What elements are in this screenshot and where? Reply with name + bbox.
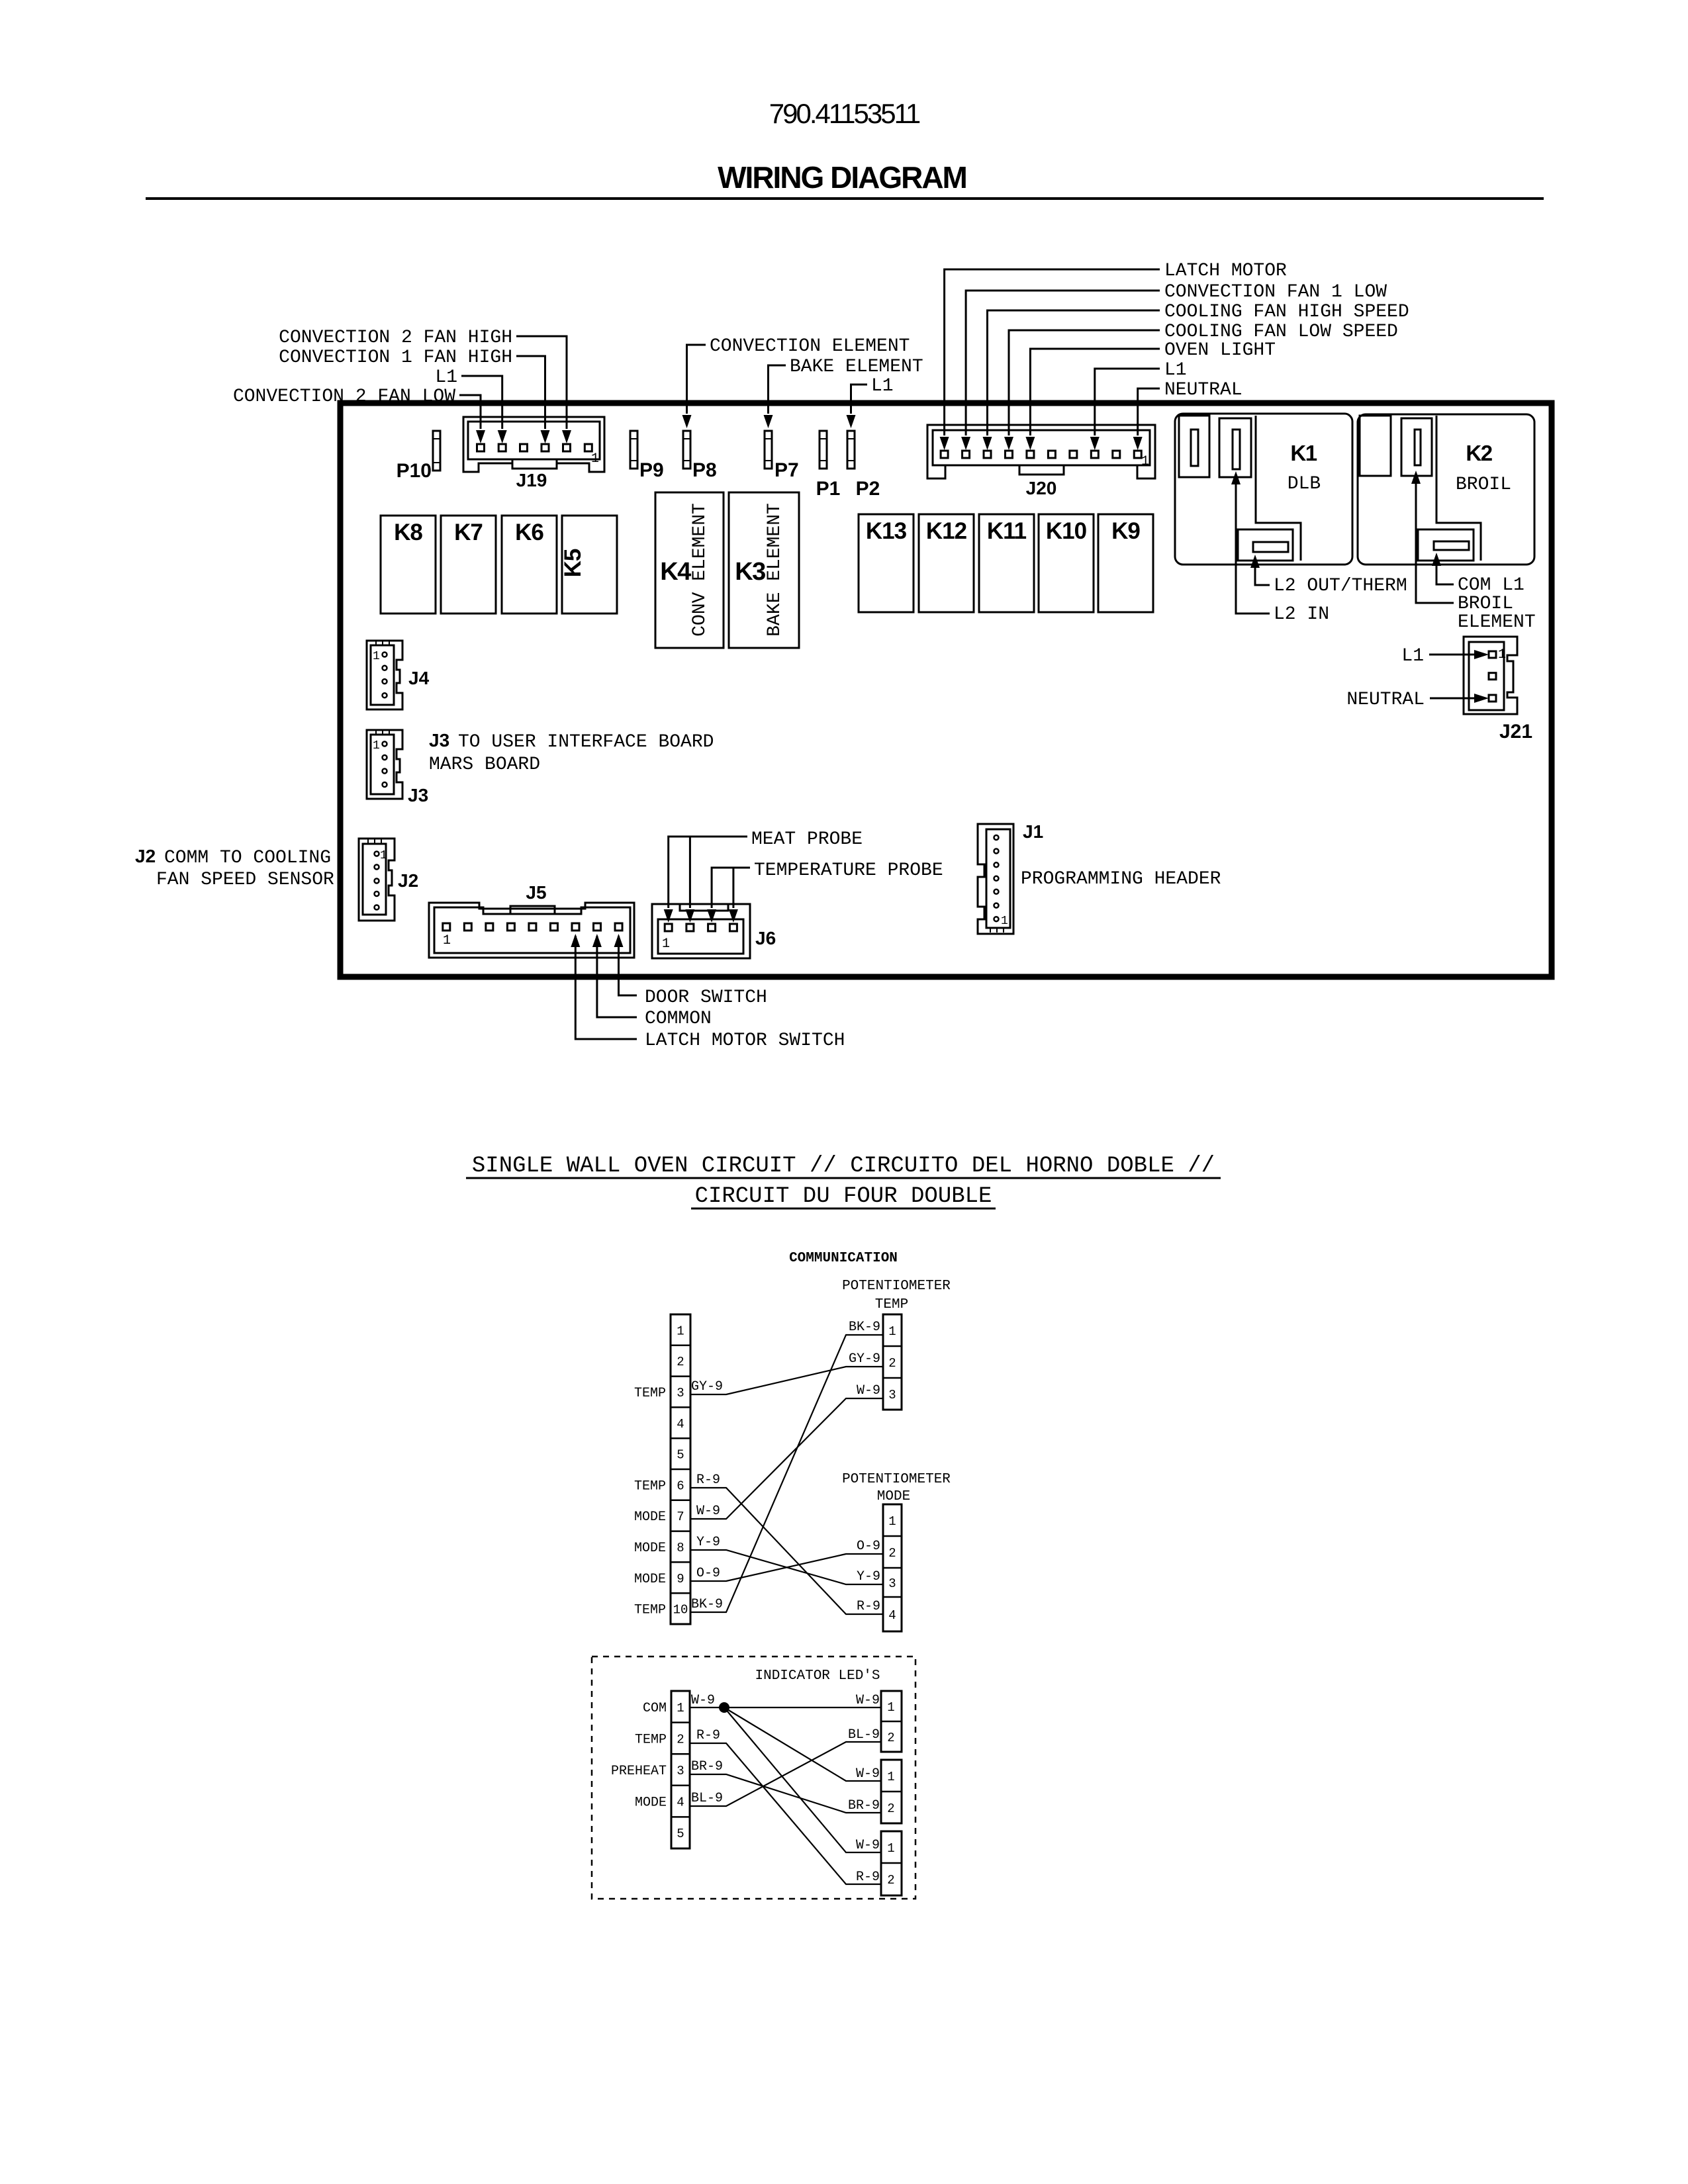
svg-text:POTENTIOMETER: POTENTIOMETER <box>842 1472 951 1487</box>
svg-text:PREHEAT: PREHEAT <box>611 1764 667 1779</box>
pin J19-3 <box>520 444 528 451</box>
connector J21 <box>1464 637 1517 714</box>
label OVEN LIGHT with leader to J20 pin at x=1556.4 <box>1025 340 1276 450</box>
svg-text:J4: J4 <box>408 668 430 688</box>
label L1 with leader to J20 pin at x=1653.8 <box>1090 360 1187 450</box>
svg-text:MODE: MODE <box>634 1572 666 1587</box>
svg-text:TEMP: TEMP <box>634 1479 666 1494</box>
heading POTENTIOMETER TEMP <box>842 1279 951 1312</box>
svg-text:3: 3 <box>677 1764 684 1778</box>
pin J20-9 <box>1113 451 1120 458</box>
svg-text:J2: J2 <box>135 846 156 866</box>
svg-text:SINGLE WALL OVEN CIRCUIT // CI: SINGLE WALL OVEN CIRCUIT // CIRCUITO DEL… <box>472 1154 1215 1179</box>
connector strip POTENTIOMETER TEMP (3 pins) <box>883 1314 902 1410</box>
svg-text:1: 1 <box>1001 915 1008 928</box>
label J3 TO USER INTERFACE BOARD <box>429 730 714 752</box>
wire O-9 COMM-9 to POT-MODE-2 <box>690 1539 883 1581</box>
svg-text:MODE: MODE <box>634 1541 666 1556</box>
wire W-9 LED-COMM-1 to LED1-1 <box>690 1693 881 1708</box>
pin J1-7 <box>994 917 999 921</box>
K2 pin slot B BROIL ELEMENT terminal <box>1401 418 1432 476</box>
dashed box INDICATOR LED'S <box>592 1657 915 1899</box>
svg-text:1: 1 <box>380 849 387 862</box>
svg-text:NEUTRAL: NEUTRAL <box>1164 380 1243 400</box>
pin J5-5 <box>529 923 536 931</box>
pin J5-8 <box>594 923 601 931</box>
label L1 with leader to J19-2 <box>435 367 506 443</box>
svg-text:P2: P2 <box>856 478 880 500</box>
svg-text:1: 1 <box>888 1324 896 1339</box>
board outline <box>340 403 1552 977</box>
svg-text:L1: L1 <box>871 376 894 396</box>
svg-text:10: 10 <box>673 1603 688 1617</box>
svg-text:COOLING FAN LOW SPEED: COOLING FAN LOW SPEED <box>1164 322 1398 342</box>
svg-text:2: 2 <box>887 1801 894 1816</box>
svg-text:1: 1 <box>373 650 380 663</box>
connector strip LED1 (2 pins) <box>881 1691 902 1752</box>
wire GY-9 COMM-3 to POT-TEMP-2 <box>690 1351 883 1394</box>
junction dot on W-9 wire <box>719 1702 729 1713</box>
label COOLING FAN LOW SPEED with leader to J20 pin at x=1524.0 <box>1004 322 1398 450</box>
svg-text:7: 7 <box>677 1510 684 1524</box>
pin J4-1 <box>383 653 387 657</box>
svg-text:LATCH MOTOR: LATCH MOTOR <box>1164 261 1287 281</box>
label TEMPERATURE PROBE with leaders to J6-3 J6-4 <box>707 860 943 923</box>
pin J5-4 <box>507 923 514 931</box>
connector strip LED COMM (5 pins) <box>671 1691 690 1848</box>
pin J3-2 <box>383 755 387 760</box>
pin J5-7 <box>572 923 579 931</box>
svg-text:J3: J3 <box>429 730 449 751</box>
svg-text:COM: COM <box>643 1701 667 1716</box>
pin J5-9 <box>615 923 622 931</box>
label L1 with leader to P2 <box>847 376 894 428</box>
svg-text:R-9: R-9 <box>857 1599 880 1614</box>
wire R-9 LED-COMM-2 to LED3-2 <box>690 1728 881 1885</box>
label NEUTRAL with leader to J20 pin at x=1718.7 <box>1133 380 1243 450</box>
relay K3 BAKE ELEMENT <box>729 492 799 648</box>
svg-text:FAN SPEED SENSOR: FAN SPEED SENSOR <box>156 870 334 890</box>
label LATCH MOTOR SWITCH with leader to J5-7 <box>571 934 845 1051</box>
svg-text:COM L1: COM L1 <box>1458 575 1524 596</box>
svg-text:COMMON: COMMON <box>645 1009 712 1029</box>
pin J3-3 <box>383 769 387 774</box>
pin J1-1 <box>994 835 999 840</box>
label CONVECTION FAN 1 LOW with leader to J20 pin at x=1459.1 <box>961 282 1387 450</box>
connector J4 <box>367 641 402 709</box>
svg-text:O-9: O-9 <box>857 1539 880 1554</box>
svg-text:L1: L1 <box>1401 646 1424 666</box>
pin J19-6 <box>585 444 592 451</box>
svg-text:COOLING FAN HIGH SPEED: COOLING FAN HIGH SPEED <box>1164 302 1409 322</box>
svg-text:6: 6 <box>677 1479 684 1493</box>
pin J6-4 <box>729 924 737 931</box>
svg-text:BR-9: BR-9 <box>848 1798 880 1813</box>
pin J20-6 <box>1048 451 1055 458</box>
svg-text:L2 IN: L2 IN <box>1274 604 1329 625</box>
pin J5-1 <box>443 923 450 931</box>
connector J3 <box>367 730 402 799</box>
svg-text:W-9: W-9 <box>856 1693 880 1708</box>
relay K10 <box>1039 514 1094 612</box>
relay K8 <box>381 516 436 614</box>
label L2 OUT/THERM with leader arrow <box>1250 555 1407 596</box>
svg-text:J6: J6 <box>755 928 776 948</box>
svg-text:4: 4 <box>677 1796 684 1810</box>
wire R-9 COMM-6 to POT-MODE-4 <box>690 1473 883 1614</box>
svg-text:MODE: MODE <box>877 1489 910 1504</box>
svg-text:3: 3 <box>888 1576 896 1591</box>
pin J20-10 <box>1134 451 1141 458</box>
pin J2-5 <box>375 905 379 910</box>
svg-text:NEUTRAL: NEUTRAL <box>1346 690 1425 710</box>
pin J6-2 <box>686 924 694 931</box>
svg-text:COMMUNICATION: COMMUNICATION <box>789 1251 898 1266</box>
svg-text:CONVECTION ELEMENT: CONVECTION ELEMENT <box>710 336 910 357</box>
svg-text:BL-9: BL-9 <box>691 1791 723 1806</box>
connector J19 <box>463 417 604 472</box>
connector J5 <box>429 903 634 958</box>
svg-text:TEMP: TEMP <box>875 1297 908 1312</box>
svg-text:J5: J5 <box>526 882 546 903</box>
relay K11 <box>979 514 1034 612</box>
pin J20-7 <box>1070 451 1077 458</box>
label MEAT PROBE with leaders to J6-1 J6-2 <box>664 829 863 923</box>
svg-text:8: 8 <box>677 1541 684 1555</box>
svg-text:POTENTIOMETER: POTENTIOMETER <box>842 1279 951 1294</box>
pin J20-5 <box>1027 451 1034 458</box>
svg-text:TO USER INTERFACE BOARD: TO USER INTERFACE BOARD <box>458 732 714 752</box>
pin J2-1 <box>375 852 379 856</box>
svg-text:K11: K11 <box>987 518 1027 544</box>
svg-text:K1: K1 <box>1290 441 1317 465</box>
label CONVECTION 2 FAN LOW with leader to J19-1 <box>233 387 485 443</box>
svg-text:R-9: R-9 <box>856 1870 880 1885</box>
pin J2-3 <box>375 879 379 884</box>
label J2 COMM TO COOLING <box>135 846 331 868</box>
svg-text:4: 4 <box>888 1608 896 1623</box>
svg-text:1: 1 <box>591 451 599 467</box>
svg-text:W-9: W-9 <box>857 1383 880 1398</box>
svg-text:1: 1 <box>443 933 451 948</box>
svg-text:MODE: MODE <box>635 1796 667 1811</box>
relay K12 <box>919 514 974 612</box>
svg-text:BROIL: BROIL <box>1458 594 1513 614</box>
svg-text:1: 1 <box>887 1841 894 1856</box>
pin J1-4 <box>994 876 999 881</box>
svg-text:P8: P8 <box>692 459 717 481</box>
svg-text:K8: K8 <box>394 520 422 545</box>
svg-text:GY-9: GY-9 <box>691 1379 723 1394</box>
relay K1 DLB <box>1175 414 1352 565</box>
svg-text:BK-9: BK-9 <box>691 1597 723 1612</box>
svg-text:L1: L1 <box>1164 360 1187 381</box>
svg-text:4: 4 <box>677 1417 684 1432</box>
wire BR-9 LED-COMM-3 to LED2-2 <box>690 1759 881 1813</box>
svg-text:J3: J3 <box>408 785 428 805</box>
label CONVECTION ELEMENT with leader to P8 <box>682 336 910 428</box>
connector strip POTENTIOMETER MODE (4 pins) <box>883 1504 902 1631</box>
svg-text:L1: L1 <box>435 367 457 388</box>
svg-text:CONVECTION 1 FAN HIGH: CONVECTION 1 FAN HIGH <box>279 347 512 368</box>
svg-text:CONVECTION 2 FAN HIGH: CONVECTION 2 FAN HIGH <box>279 328 512 348</box>
wire W-9 junction to LED2-1 <box>724 1707 881 1782</box>
heading POTENTIOMETER MODE <box>842 1472 951 1504</box>
K2 output terminal COM L1 <box>1418 529 1474 561</box>
label L1 with arrow to J21-1 <box>1401 646 1489 666</box>
wire BK-9 COMM-10 to POT-TEMP-1 <box>690 1320 883 1612</box>
svg-text:DLB: DLB <box>1288 474 1321 494</box>
svg-text:BL-9: BL-9 <box>848 1727 880 1743</box>
connector J6 <box>652 904 750 958</box>
svg-text:2: 2 <box>888 1546 896 1561</box>
svg-text:K13: K13 <box>866 518 907 544</box>
svg-text:MEAT PROBE: MEAT PROBE <box>751 829 863 850</box>
label COOLING FAN HIGH SPEED with leader to J20 pin at x=1491.5 <box>983 302 1409 450</box>
label NEUTRAL with arrow to J21-3 <box>1346 690 1489 710</box>
pin J4-2 <box>383 666 387 670</box>
svg-text:CONV ELEMENT: CONV ELEMENT <box>690 503 710 637</box>
svg-text:TEMP: TEMP <box>634 1386 666 1401</box>
svg-text:2: 2 <box>888 1356 896 1371</box>
label BAKE ELEMENT with leader to P7 <box>764 357 923 428</box>
wire W-9 junction to LED3-1 <box>724 1707 881 1853</box>
svg-text:BAKE ELEMENT: BAKE ELEMENT <box>790 357 923 377</box>
svg-text:MARS BOARD: MARS BOARD <box>429 754 540 775</box>
relay K2 BROIL <box>1358 414 1534 565</box>
pin J1-2 <box>994 849 999 854</box>
svg-text:K4: K4 <box>660 558 691 586</box>
svg-text:K12: K12 <box>926 518 967 544</box>
svg-text:J2: J2 <box>398 870 418 891</box>
svg-text:K10: K10 <box>1046 518 1087 544</box>
svg-text:GY-9: GY-9 <box>849 1351 880 1367</box>
svg-text:WIRING DIAGRAM: WIRING DIAGRAM <box>718 160 966 195</box>
svg-text:TEMP: TEMP <box>634 1603 666 1618</box>
pin J19-1 <box>477 444 485 451</box>
svg-text:BROIL: BROIL <box>1456 475 1511 495</box>
svg-text:TEMPERATURE PROBE: TEMPERATURE PROBE <box>754 860 943 881</box>
relay K9 <box>1098 514 1153 612</box>
header P9 <box>630 431 637 469</box>
header P7 <box>765 431 772 469</box>
svg-text:J21: J21 <box>1499 721 1532 743</box>
svg-text:K2: K2 <box>1466 441 1492 465</box>
svg-text:W-9: W-9 <box>856 1766 880 1782</box>
connector strip LED2 (2 pins) <box>881 1760 902 1823</box>
svg-text:R-9: R-9 <box>696 1473 720 1488</box>
section title SINGLE WALL OVEN CIRCUIT <box>466 1154 1221 1209</box>
svg-text:5: 5 <box>677 1827 684 1841</box>
svg-text:W-9: W-9 <box>696 1504 720 1519</box>
svg-text:1: 1 <box>1498 647 1506 662</box>
svg-text:K3: K3 <box>735 558 765 586</box>
svg-text:ELEMENT: ELEMENT <box>1458 612 1536 633</box>
svg-text:1: 1 <box>1141 454 1149 469</box>
pin J3-4 <box>383 782 387 787</box>
svg-text:L2 OUT/THERM: L2 OUT/THERM <box>1274 576 1407 596</box>
svg-text:BR-9: BR-9 <box>691 1759 723 1774</box>
svg-text:K6: K6 <box>515 520 543 545</box>
svg-text:COMM TO COOLING: COMM TO COOLING <box>164 848 331 868</box>
svg-text:Y-9: Y-9 <box>857 1569 880 1584</box>
svg-text:3: 3 <box>888 1388 896 1402</box>
svg-text:TEMP: TEMP <box>635 1732 667 1747</box>
pin J2-4 <box>375 891 379 896</box>
svg-text:2: 2 <box>887 1731 894 1745</box>
svg-text:1: 1 <box>677 1701 684 1715</box>
label BROIL ELEMENT with leader arrow <box>1411 471 1536 633</box>
svg-text:OVEN LIGHT: OVEN LIGHT <box>1164 340 1276 361</box>
label CONVECTION 2 FAN HIGH with leader to J19-5 <box>279 328 571 443</box>
svg-text:J1: J1 <box>1023 821 1043 842</box>
connector J2 <box>359 839 395 921</box>
svg-text:3: 3 <box>677 1386 684 1400</box>
connector J20 <box>927 425 1155 478</box>
pin J6-1 <box>665 924 672 931</box>
pin J20-2 <box>962 451 970 458</box>
svg-text:INDICATOR LED'S: INDICATOR LED'S <box>755 1668 880 1684</box>
svg-text:K5: K5 <box>560 549 586 577</box>
svg-text:2: 2 <box>677 1355 684 1369</box>
relay K6 <box>502 516 557 614</box>
header P2 <box>847 431 855 469</box>
svg-text:W-9: W-9 <box>691 1693 715 1708</box>
pin J1-6 <box>994 903 999 908</box>
pin J20-1 <box>941 451 948 458</box>
svg-text:CONVECTION FAN 1 LOW: CONVECTION FAN 1 LOW <box>1164 282 1387 302</box>
svg-text:O-9: O-9 <box>696 1566 720 1581</box>
svg-text:1: 1 <box>887 1700 894 1715</box>
svg-text:W-9: W-9 <box>856 1838 880 1853</box>
K1 output terminal L2 OUT/THERM <box>1238 529 1293 561</box>
pin J19-2 <box>498 444 506 451</box>
K2 pin rect A <box>1360 416 1391 476</box>
pin J6-3 <box>708 924 716 931</box>
svg-text:2: 2 <box>887 1873 894 1888</box>
relay K7 <box>441 516 496 614</box>
svg-text:K9: K9 <box>1111 518 1140 544</box>
header P10 <box>433 431 440 471</box>
header P8 <box>683 431 690 469</box>
pin J20-3 <box>984 451 991 458</box>
connector J1 <box>978 824 1013 934</box>
svg-text:J19: J19 <box>516 470 547 490</box>
relay K5 <box>562 516 617 614</box>
pin J21-1 <box>1489 651 1496 658</box>
label L2 IN with leader arrow <box>1231 471 1329 625</box>
svg-text:K7: K7 <box>454 520 483 545</box>
wire W-9 COMM-7 to POT-TEMP-3 <box>690 1383 883 1519</box>
label LATCH MOTOR with leader to J20 pin at x=1426.6 <box>940 261 1287 450</box>
label CONVECTION 1 FAN HIGH with leader to J19-4 <box>279 347 549 443</box>
wire BL-9 LED-COMM-4 to LED1-2 <box>690 1727 881 1806</box>
svg-text:790.41153511: 790.41153511 <box>769 98 920 129</box>
svg-text:Y-9: Y-9 <box>696 1535 720 1550</box>
relay K4 CONV ELEMENT <box>655 492 724 648</box>
label COMMON with leader to J5-8 <box>592 934 712 1029</box>
svg-text:BAKE ELEMENT: BAKE ELEMENT <box>765 503 785 637</box>
label DOOR SWITCH with leader to J5-9 <box>614 934 767 1008</box>
svg-text:9: 9 <box>677 1572 684 1586</box>
pin J19-4 <box>541 444 549 451</box>
pin J5-6 <box>550 923 557 931</box>
svg-text:R-9: R-9 <box>696 1728 720 1743</box>
svg-text:5: 5 <box>677 1448 684 1463</box>
svg-text:P9: P9 <box>639 459 664 481</box>
pin J4-3 <box>383 679 387 684</box>
svg-text:LATCH MOTOR SWITCH: LATCH MOTOR SWITCH <box>645 1030 845 1051</box>
heading underline rule <box>146 197 1544 200</box>
wire Y-9 COMM-8 to POT-MODE-3 <box>690 1535 883 1584</box>
label COM L1 with leader arrow <box>1432 553 1524 596</box>
pin J1-3 <box>994 862 999 867</box>
K1 pin slot B L2 IN terminal <box>1219 418 1251 477</box>
svg-text:MODE: MODE <box>634 1510 666 1525</box>
pin J21-2 <box>1489 673 1496 680</box>
pin J4-4 <box>383 693 387 698</box>
svg-text:P7: P7 <box>774 459 799 481</box>
svg-text:BK-9: BK-9 <box>849 1320 880 1335</box>
svg-text:1: 1 <box>677 1324 684 1338</box>
svg-text:2: 2 <box>677 1732 684 1747</box>
svg-text:CIRCUIT DU FOUR DOUBLE: CIRCUIT DU FOUR DOUBLE <box>695 1184 992 1209</box>
pin J3-1 <box>383 742 387 747</box>
svg-text:1: 1 <box>662 936 670 952</box>
pin J19-5 <box>563 444 571 451</box>
pin J1-5 <box>994 889 999 894</box>
relay K13 <box>859 514 914 612</box>
pin J20-8 <box>1091 451 1098 458</box>
svg-text:DOOR SWITCH: DOOR SWITCH <box>645 987 767 1008</box>
connector strip COMM (10 pins) <box>671 1314 690 1624</box>
pin J5-3 <box>486 923 493 931</box>
K1 pin slot A <box>1179 416 1209 477</box>
svg-text:1: 1 <box>887 1770 894 1784</box>
pin J5-2 <box>464 923 471 931</box>
pin J20-4 <box>1005 451 1012 458</box>
svg-text:P1: P1 <box>816 478 841 500</box>
pin J21-3 <box>1489 695 1496 702</box>
svg-text:J20: J20 <box>1026 478 1057 498</box>
svg-text:CONVECTION 2 FAN LOW: CONVECTION 2 FAN LOW <box>233 387 455 407</box>
pin J2-2 <box>375 865 379 870</box>
svg-text:PROGRAMMING HEADER: PROGRAMMING HEADER <box>1021 869 1221 889</box>
connector strip LED3 (2 pins) <box>881 1831 902 1895</box>
svg-text:1: 1 <box>373 739 380 752</box>
svg-text:1: 1 <box>888 1514 896 1529</box>
svg-text:P10: P10 <box>397 460 432 482</box>
header P1 <box>820 431 827 469</box>
